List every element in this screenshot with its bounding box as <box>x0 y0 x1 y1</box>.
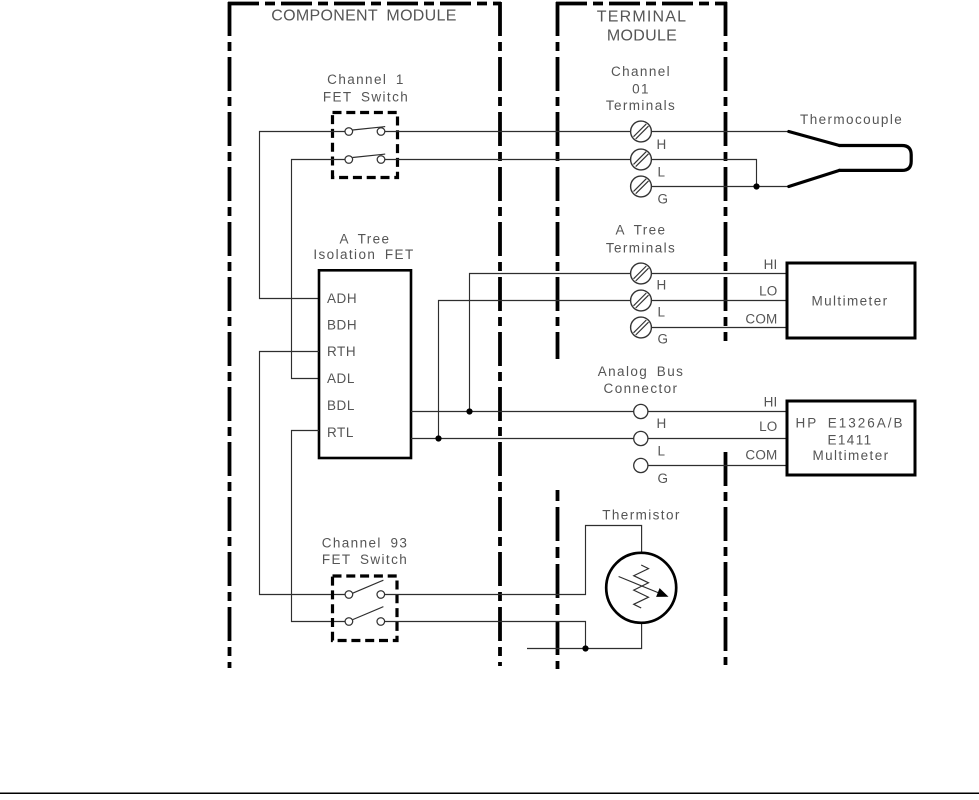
A tree terminal H screw <box>631 263 652 284</box>
svg-text:Terminals: Terminals <box>606 241 676 256</box>
svg-text:TERMINAL: TERMINAL <box>597 9 688 26</box>
svg-text:FET Switch: FET Switch <box>323 90 409 105</box>
switch S1b contacts <box>345 156 353 164</box>
channel 1 FET switch box <box>333 113 398 178</box>
svg-text:G: G <box>658 332 670 347</box>
switch S1b blade <box>353 154 386 157</box>
junction dot thermocouple low <box>753 183 759 189</box>
switch S1a contacts <box>345 128 353 136</box>
switch S93b blade <box>353 607 384 620</box>
wire ch1 bottom input to ADL <box>292 160 346 379</box>
svg-text:MODULE: MODULE <box>607 28 677 45</box>
svg-text:Isolation FET: Isolation FET <box>313 247 414 262</box>
wire A tree L link down to RTL row <box>439 301 631 439</box>
wire A tree L terminal to multimeter LO <box>652 300 788 302</box>
svg-text:RTH: RTH <box>327 344 356 359</box>
switch S93b contacts <box>345 618 353 626</box>
svg-text:L: L <box>658 444 667 459</box>
svg-text:ADL: ADL <box>327 371 355 386</box>
svg-text:H: H <box>657 278 668 293</box>
svg-text:Multimeter: Multimeter <box>811 294 888 309</box>
wire ch93 bottom output down <box>384 622 585 649</box>
A tree isolation FET box U1 <box>319 270 411 458</box>
thermistor zigzag <box>634 565 649 608</box>
A tree terminal G screw <box>631 317 652 338</box>
svg-text:Connector: Connector <box>604 381 679 396</box>
wire RTH to ch93 top <box>260 352 346 595</box>
multimeter box <box>787 263 915 338</box>
svg-text:Terminals: Terminals <box>606 98 676 113</box>
svg-text:COM: COM <box>745 312 777 327</box>
svg-text:Channel 1: Channel 1 <box>327 72 405 87</box>
svg-text:E1411: E1411 <box>827 433 872 448</box>
wire BDL row to analog bus H <box>411 411 634 413</box>
wire RTL to ch93 bottom <box>292 431 346 622</box>
svg-text:Thermocouple: Thermocouple <box>800 112 903 127</box>
svg-text:H: H <box>657 137 668 152</box>
junction dot ch93 bottom <box>582 645 588 651</box>
thermistor arrow <box>619 577 659 594</box>
thermocouple tip <box>839 146 911 171</box>
ch01 terminal G screw <box>631 176 652 197</box>
wire A tree H link down to BDL row <box>470 274 631 412</box>
thermocouple lower lead <box>789 170 840 186</box>
wire ch1 top output to ch01 H terminal <box>385 131 631 133</box>
wire ch01 H terminal to thermocouple <box>652 131 790 133</box>
switch S1a blade <box>353 127 386 130</box>
terminal module right border lower <box>724 452 728 665</box>
thermistor circle <box>606 553 676 623</box>
ch01 terminal H screw <box>631 121 652 142</box>
wire ch1 bottom output to ch01 L terminal <box>385 159 631 161</box>
wire analog bus L to HP LO <box>648 438 787 440</box>
svg-text:L: L <box>658 305 667 320</box>
svg-text:HI: HI <box>764 257 778 272</box>
wire ch93 top output to thermistor top <box>384 526 641 595</box>
component module top border <box>228 2 501 6</box>
svg-text:HP E1326A/B: HP E1326A/B <box>795 416 904 431</box>
svg-text:HI: HI <box>764 395 778 410</box>
junction dot RTL row <box>435 435 441 441</box>
svg-text:A Tree: A Tree <box>340 231 391 246</box>
wire ch1 top input to ADH <box>260 132 346 299</box>
wire ch01 L terminal elbow to G line <box>652 160 757 187</box>
terminal module right border upper <box>724 2 728 341</box>
svg-text:L: L <box>658 165 667 180</box>
switch S93a contacts <box>345 591 353 599</box>
ch01 terminal L screw <box>631 149 652 170</box>
HP E1326A/B E1411 multimeter box <box>787 401 915 475</box>
wire RTL row to analog bus L <box>411 438 634 440</box>
analog bus pin H <box>634 404 648 418</box>
svg-text:01: 01 <box>632 82 650 97</box>
svg-text:A Tree: A Tree <box>616 223 667 238</box>
svg-text:BDH: BDH <box>327 318 357 333</box>
wire analog bus G to HP COM <box>648 465 787 467</box>
svg-text:LO: LO <box>759 419 777 434</box>
component module left border <box>228 2 232 668</box>
wire ch01 G terminal to thermocouple <box>652 186 790 188</box>
svg-text:ADH: ADH <box>327 291 357 306</box>
analog bus pin L <box>634 431 648 445</box>
wire A tree G terminal to multimeter COM <box>652 327 788 329</box>
wire A tree H terminal to multimeter HI <box>652 273 788 275</box>
svg-text:RTL: RTL <box>327 425 354 440</box>
analog bus pin G <box>634 458 648 472</box>
svg-text:Analog Bus: Analog Bus <box>598 364 685 379</box>
terminal module left border lower <box>556 490 560 669</box>
wire bottom stub to thermistor bottom <box>527 614 642 649</box>
svg-text:LO: LO <box>759 284 777 299</box>
svg-text:Multimeter: Multimeter <box>812 448 889 463</box>
svg-text:COM: COM <box>745 448 777 463</box>
terminal module top border <box>556 2 727 6</box>
junction dot BDL row <box>466 408 472 414</box>
thermocouple upper lead <box>789 132 840 146</box>
terminal module left border upper <box>556 2 560 359</box>
svg-text:G: G <box>658 471 670 486</box>
svg-text:G: G <box>658 192 670 207</box>
svg-text:Channel: Channel <box>611 64 671 79</box>
svg-text:FET Switch: FET Switch <box>322 552 408 567</box>
svg-text:Channel 93: Channel 93 <box>322 535 409 550</box>
bottom rule <box>0 792 979 794</box>
svg-text:Thermistor: Thermistor <box>602 508 681 523</box>
channel 93 FET switch box <box>333 576 398 641</box>
A tree terminal L screw <box>631 290 652 311</box>
component module right border <box>498 2 502 666</box>
svg-text:H: H <box>657 416 668 431</box>
switch S93a blade <box>353 580 384 593</box>
svg-text:BDL: BDL <box>327 398 355 413</box>
svg-text:COMPONENT MODULE: COMPONENT MODULE <box>271 7 456 24</box>
wire analog bus H to HP HI <box>648 411 787 413</box>
